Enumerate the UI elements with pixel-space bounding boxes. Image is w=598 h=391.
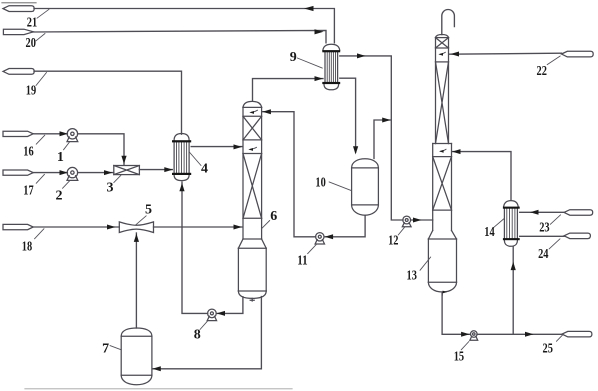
pump 1 xyxy=(67,129,78,142)
leader for label 6 xyxy=(262,221,270,229)
leader for label 19 xyxy=(36,73,47,86)
svg-text:20: 20 xyxy=(26,36,36,51)
svg-text:5: 5 xyxy=(145,203,152,218)
column 13 bottom cone xyxy=(428,231,456,240)
internal distributor arrow in column 13 top xyxy=(438,52,445,56)
arrow right after pump 12 xyxy=(413,218,422,223)
column 13 lower shell xyxy=(433,144,452,231)
svg-text:11: 11 xyxy=(297,253,307,268)
leader for label 17 xyxy=(36,174,44,183)
column 6 bottom drum xyxy=(238,248,266,298)
pump 12 xyxy=(402,216,411,227)
leader for label 7 xyxy=(110,346,121,350)
svg-text:12: 12 xyxy=(388,234,398,249)
leader for label 16 xyxy=(36,135,45,144)
heat exchanger 4 xyxy=(172,134,191,181)
pipe mixer 3 outlet to exchanger 4 xyxy=(139,169,172,171)
column 13 bottom drum xyxy=(428,239,456,292)
svg-text:6: 6 xyxy=(270,209,277,224)
svg-text:15: 15 xyxy=(454,350,464,365)
pipe pump 11 discharge up to column 6 reflux xyxy=(262,112,315,237)
arrow left into column 13 reboiler return xyxy=(452,149,461,154)
vessel 10 xyxy=(352,159,379,215)
leader for label 14 xyxy=(494,219,504,228)
leader for label 15 xyxy=(461,342,469,350)
arrow left on stream 23 into exchanger 14 xyxy=(530,210,539,215)
flag 23 inlet stream xyxy=(564,210,593,216)
svg-text:25: 25 xyxy=(543,342,553,357)
heat exchanger 14 xyxy=(503,201,520,247)
leader for label 21 xyxy=(37,9,49,18)
pipe column 13 bottoms to pump 15 xyxy=(442,294,470,335)
pump 8 xyxy=(207,309,216,321)
column 13 top X demister box xyxy=(436,38,449,48)
flag 19 inlet stream xyxy=(3,69,34,75)
arrow left into column 13 from stream 22 xyxy=(451,52,460,57)
svg-text:22: 22 xyxy=(537,64,547,79)
arrow left into pump 11 xyxy=(325,234,334,239)
pipe line 19 from flag 19 down into exchanger 4 top xyxy=(34,71,182,134)
pipe exchanger 9 upper right outlet down to pump 12 xyxy=(340,56,403,220)
svg-text:19: 19 xyxy=(26,83,36,98)
leader for label 3 xyxy=(114,175,121,182)
svg-text:7: 7 xyxy=(102,341,109,356)
arrow right on pump 15 discharge xyxy=(525,332,534,337)
svg-text:17: 17 xyxy=(23,184,33,199)
column 6 lower X packing xyxy=(243,154,262,219)
svg-text:8: 8 xyxy=(194,328,201,343)
flag 17 inlet stream xyxy=(3,170,33,175)
flag 18 inlet stream xyxy=(3,224,33,229)
column 13 upper shell xyxy=(436,35,449,144)
leader for label 22 xyxy=(547,56,560,65)
svg-text:21: 21 xyxy=(27,16,37,31)
vessel 7 xyxy=(121,328,152,385)
arrow right at vessel 10 vapor junction xyxy=(382,118,391,123)
arrow right into pump 15 xyxy=(461,332,470,337)
pipe pump 8 discharge riser up into exchanger 4 bottom xyxy=(182,182,208,313)
internal distributor arrow in column 6 feed xyxy=(248,147,256,151)
pipe stream 16 to pump 1 xyxy=(33,133,67,135)
arrow right into column 6 lower inlet xyxy=(234,225,243,230)
column 6 packing section dividers xyxy=(243,116,262,239)
pipe pump 15 discharge to flag 25 xyxy=(477,333,562,335)
pipe line 21 from exchanger 9 top to flag 21 xyxy=(34,9,334,43)
svg-text:2: 2 xyxy=(56,189,63,204)
leader for label 11 xyxy=(308,245,317,254)
leader for label 18 xyxy=(35,229,45,239)
pipe exchanger 14 lower outlet to flag 24 xyxy=(520,235,564,237)
leader for label 9 xyxy=(297,58,322,68)
svg-text:1: 1 xyxy=(57,150,64,165)
arrow right into column 6 feed inlet xyxy=(234,144,243,149)
pipe line 20 from flag 20 down into exchanger 9 top xyxy=(33,30,326,42)
leader for label 20 xyxy=(36,34,45,41)
pipe vessel 7 vapor up into venturi 5 throat xyxy=(135,233,137,328)
venturi 5 xyxy=(119,222,153,233)
arrow left on line 21 xyxy=(304,6,314,11)
pipe exchanger 4 right outlet into column 6 feed xyxy=(191,146,242,148)
mixer 3 xyxy=(114,166,140,175)
flag 20 inlet stream xyxy=(3,29,33,34)
leader for label 4 xyxy=(189,152,201,166)
arrow right into mixer 3 left xyxy=(104,170,113,175)
arrow right into exchanger 4 left xyxy=(164,167,173,172)
pipe stream 23 to exchanger 14 xyxy=(520,211,564,213)
leader for label 13 xyxy=(420,257,431,270)
internal distributor arrow in column 6 reflux xyxy=(249,110,257,114)
arrow left into vessel 7 xyxy=(152,366,161,371)
svg-text:10: 10 xyxy=(315,176,325,191)
svg-text:3: 3 xyxy=(107,180,114,195)
svg-text:9: 9 xyxy=(290,50,297,65)
arrow right on exchanger 9 upper outlet xyxy=(357,53,366,58)
pipe exchanger 9 lower right outlet down into vessel 10 xyxy=(340,78,356,152)
pipe vessel 10 bottom to pump 11 xyxy=(325,215,366,237)
column 6 shell xyxy=(243,101,262,239)
column 13 tall X packing xyxy=(436,62,449,144)
column 13 upper divider xyxy=(436,61,449,63)
arrow up on reboiler riser xyxy=(511,262,516,270)
pipe column 6 overhead to exchanger 9 left inlet xyxy=(253,79,324,101)
svg-text:16: 16 xyxy=(23,145,33,160)
svg-text:13: 13 xyxy=(407,269,417,284)
flag 21 outlet stream xyxy=(3,6,34,12)
arrow up into venturi 5 suction xyxy=(134,234,139,242)
leader for label 1 xyxy=(64,142,70,150)
leader for label 12 xyxy=(398,227,404,235)
pipe exchanger 14 top riser into column 13 xyxy=(452,152,511,200)
scan artifact top left xyxy=(2,2,36,4)
flag 16 inlet stream xyxy=(3,131,33,136)
arrow down into vessel 10 top xyxy=(353,146,358,154)
leader for label 25 xyxy=(556,335,562,341)
svg-text:23: 23 xyxy=(539,220,549,235)
column 6 bottom cone xyxy=(238,239,266,248)
pipe venturi 5 outlet into column 6 xyxy=(154,226,243,228)
arrow down into mixer 3 top xyxy=(121,156,126,164)
pump 2 xyxy=(67,167,78,180)
flag 22 inlet stream xyxy=(562,51,594,57)
arrow right on stream 18 before venturi 5 xyxy=(107,225,116,230)
heat exchanger 9 xyxy=(322,44,340,90)
arrow right into pump 1 xyxy=(60,131,69,136)
pipe vessel 10 vapor outlet joining downcomer xyxy=(374,120,391,159)
column 13 step divider xyxy=(433,143,452,145)
arrow left into column 6 reflux xyxy=(262,109,271,114)
arrow right into pump 2 xyxy=(60,170,69,175)
flag 24 outlet stream xyxy=(564,233,590,239)
pipe stream 18 to venturi 5 xyxy=(33,226,119,228)
leader for label 24 xyxy=(549,239,560,249)
column 6 upper X packing xyxy=(243,116,262,140)
pipe column 6 bottoms left to pump 8 xyxy=(217,297,243,314)
column 6 bottom nozzle mark xyxy=(250,298,254,301)
pump 11 xyxy=(315,233,324,244)
flag 25 outlet stream xyxy=(562,331,592,337)
scan artifact bottom streak xyxy=(25,388,292,390)
column 13 lower dividers xyxy=(433,157,452,211)
svg-text:18: 18 xyxy=(22,240,32,255)
arrow up into exchanger 4 bottom xyxy=(179,183,184,191)
pipe pump 1 discharge down into mixer 3 xyxy=(78,134,124,165)
pipe stream 22 into column 13 top xyxy=(449,53,562,54)
pipe pump 2 discharge to mixer 3 xyxy=(78,172,114,174)
internal distributor arrow in column 13 return xyxy=(439,149,446,153)
leader for label 2 xyxy=(63,181,70,188)
leader for label 8 xyxy=(200,321,207,329)
leader for label 23 xyxy=(550,215,560,225)
arrow right into exchanger 9 left xyxy=(315,76,324,81)
leader for label 5 xyxy=(136,216,146,225)
pipe reboiler riser junction up into exchanger 14 bottom xyxy=(512,247,514,334)
pipe column 6 bottoms right down to vessel 7 xyxy=(152,297,261,369)
arrow right on line 20 xyxy=(315,29,324,34)
svg-text:14: 14 xyxy=(484,225,494,240)
arrow left into pump 8 xyxy=(217,311,226,316)
column 13 bottom nozzle mark xyxy=(441,292,443,295)
svg-text:24: 24 xyxy=(538,247,548,262)
pump 15 xyxy=(470,331,478,341)
column 13 lower X packing xyxy=(433,157,452,211)
leader for label 10 xyxy=(329,182,351,191)
svg-text:4: 4 xyxy=(201,161,208,176)
pipe stream 17 to pump 2 xyxy=(33,172,67,174)
pipe gooseneck vent on column 13 top xyxy=(442,9,455,34)
pipe pump 12 discharge into column 13 xyxy=(411,219,433,221)
